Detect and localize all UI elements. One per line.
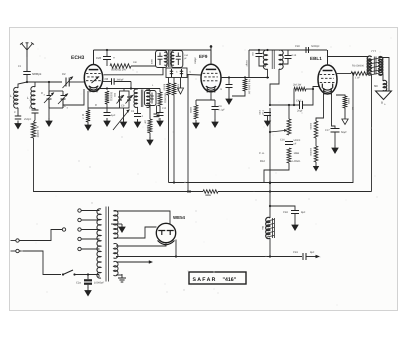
wire C26 arrow out <box>306 255 320 259</box>
wire HT bus right <box>249 49 327 51</box>
wire gang top <box>49 90 63 92</box>
resistor R16 <box>314 146 318 162</box>
resistor R8 cathode 300 <box>194 105 198 119</box>
inductor IF2 primary <box>263 50 267 69</box>
arrow IF1 shield ground <box>178 78 184 95</box>
wire C6 to R1 <box>34 113 36 122</box>
resistor R2 <box>86 110 90 122</box>
inductor IF1 secondary winding <box>171 52 174 65</box>
svg-text:C8: C8 <box>105 77 109 81</box>
wire EF9 top stub <box>210 45 212 50</box>
wire gang to ground <box>48 108 50 119</box>
wire oscillator grid row <box>98 88 138 90</box>
svg-text:C12: C12 <box>162 107 167 110</box>
capacitor C18 IF2 secondary <box>285 56 292 59</box>
capacitor trimmer IF1 a <box>170 69 173 77</box>
resistor R17 cathode bias <box>336 95 345 96</box>
wire EF9 anode line <box>221 77 269 79</box>
wire AVC bus <box>169 182 354 184</box>
node EF9 top <box>210 45 213 48</box>
ground below R2 <box>85 122 91 130</box>
core oscillator transformer <box>141 90 143 108</box>
node input junction <box>26 81 28 83</box>
svg-text:R9 2.2MΩ 1W: R9 2.2MΩ 1W <box>248 79 251 95</box>
svg-text:50μF: 50μF <box>341 131 347 134</box>
resistor R6 AVC <box>167 83 171 95</box>
wire HT output line <box>176 256 302 258</box>
wire input to C2 <box>27 81 62 83</box>
svg-text:8μF: 8μF <box>301 211 306 214</box>
wire to AVC bus right <box>352 74 354 184</box>
wire R5 to C12 <box>159 106 161 112</box>
svg-text:C. A.: C. A. <box>259 152 265 155</box>
capacitor C13 IF1 primary <box>158 53 163 66</box>
svg-text:1W: 1W <box>113 93 116 97</box>
svg-text:C2: C2 <box>62 72 66 76</box>
svg-text:C6: C6 <box>29 107 33 110</box>
tube EF9 IF amplifier <box>201 64 221 92</box>
wire oscillator bottom row <box>88 107 120 109</box>
wire L1 top to input node <box>18 82 27 88</box>
capacitor C12 <box>157 113 164 116</box>
ground below C15 <box>226 96 232 104</box>
svg-text:20μF: 20μF <box>297 110 303 113</box>
svg-text:300Ω: 300Ω <box>189 107 192 113</box>
resistor R3 screen 50000 <box>110 64 131 68</box>
svg-text:"416": "416" <box>223 277 237 283</box>
capacitor C14 IF1 secondary <box>176 53 181 66</box>
inductor filament winding rectifier <box>114 244 118 259</box>
capacitor C20 screen bypass <box>103 57 111 60</box>
speaker cone <box>376 90 392 99</box>
capacitor C5 below L1 <box>15 116 22 119</box>
svg-text:2-10: 2-10 <box>292 54 297 57</box>
svg-text:500000: 500000 <box>309 148 312 156</box>
svg-text:340pF: 340pF <box>117 78 125 81</box>
wire rectifier filament lead 2 HT output <box>116 240 176 257</box>
ground below trimmer box <box>120 119 126 127</box>
wire secondary top to speaker return <box>379 58 390 92</box>
wire HT bus top <box>94 49 212 51</box>
wire R15 R16 join <box>315 138 317 146</box>
node oscillator grid <box>130 87 132 89</box>
capacitor C12a padder <box>154 114 160 117</box>
capacitor C1 antenna 5000pF <box>23 72 31 75</box>
inductor HT secondary <box>114 210 118 238</box>
box IF1 secondary can <box>171 51 183 68</box>
wire ECH3 triode anode to C8 <box>103 81 111 83</box>
wire C20a down <box>267 116 269 119</box>
wire to R8 <box>195 100 197 105</box>
svg-text:WE54: WE54 <box>173 215 186 220</box>
wire EBL1 cathode leg right <box>332 90 336 129</box>
wire EBL1 top to bus <box>327 50 329 65</box>
core mains transformer <box>106 207 109 282</box>
wire reaction to C12a <box>156 106 158 115</box>
inductor filament winding heaters <box>114 261 119 275</box>
svg-text:4000: 4000 <box>151 58 154 64</box>
node choke bottom <box>269 255 271 257</box>
node R4 top <box>106 87 108 89</box>
tube ECH3 converter <box>84 65 102 93</box>
ground below C24 <box>85 288 91 296</box>
wire transformer to ground bus <box>371 75 373 192</box>
wire down to tuning gang <box>48 82 50 91</box>
inductor mains primary <box>97 209 101 278</box>
wire choke top to C25 <box>270 206 295 210</box>
svg-text:EBL1: EBL1 <box>310 56 322 61</box>
inductor output transformer primary <box>367 56 371 75</box>
svg-text:R: R <box>81 114 85 116</box>
wire L1 bottom <box>17 108 19 116</box>
terminal mains tap 3 <box>78 228 81 231</box>
capacitor C26 output 8uF <box>303 253 306 260</box>
capacitor C15 <box>226 85 233 88</box>
box oscillator trimmer gang <box>120 91 130 108</box>
wire ground bus right <box>218 191 372 193</box>
core output transformer <box>374 57 376 75</box>
svg-text:C: C <box>14 111 16 114</box>
resistor R18 10 ohm hum <box>203 190 218 194</box>
resistor R10 grid 2M <box>294 87 306 91</box>
box oscillator reaction can <box>145 91 157 106</box>
svg-text:C2a: C2a <box>76 282 81 285</box>
wire transformer top <box>371 56 373 59</box>
wire oscillator top right <box>138 88 161 90</box>
wire C20 to R3 <box>106 60 108 67</box>
node C24 tap <box>87 273 89 275</box>
wire L2 top to input line <box>34 82 36 87</box>
ground heater winding <box>118 274 126 282</box>
wire tap 3 to primary <box>81 229 99 231</box>
node EBL1 grid <box>312 88 314 90</box>
node IF2 primary top <box>266 49 268 51</box>
terminal mains tap 4 <box>78 237 81 240</box>
svg-text:C17: C17 <box>325 129 330 132</box>
svg-text:10Ω: 10Ω <box>205 194 210 197</box>
resistor R4 oscillator 50000 <box>105 91 109 104</box>
svg-text:30000: 30000 <box>357 65 365 68</box>
svg-text:1 W: 1 W <box>355 77 360 80</box>
wire to R12 top <box>288 105 290 119</box>
inductor L1 <box>14 87 18 108</box>
capacitor C9 trimmer a <box>117 95 125 104</box>
inductor voice coil <box>383 80 387 91</box>
wire to C16 <box>214 100 216 106</box>
terminal mains tap 1 <box>78 209 81 212</box>
wire HT bottom to WE54 plate 2 <box>114 227 157 238</box>
svg-text:5000pF: 5000pF <box>32 72 42 76</box>
svg-text:C10: C10 <box>258 110 261 115</box>
wire to C20 <box>106 50 108 56</box>
wire IF1 return left <box>168 78 170 84</box>
svg-text:B: B <box>381 101 383 105</box>
tube EBL1 output <box>318 65 337 95</box>
wire R10 left leg <box>293 89 295 105</box>
wire detector to choke feed <box>269 112 271 218</box>
terminal mains input upper <box>16 239 19 242</box>
terminal mains input lower <box>16 249 19 252</box>
capacitor C6 <box>32 110 39 113</box>
svg-text:5H: 5H <box>261 227 264 230</box>
wire C17 down <box>259 57 266 67</box>
resistor R5 <box>158 92 162 106</box>
svg-text:15000: 15000 <box>36 130 39 138</box>
svg-text:5000pF: 5000pF <box>311 45 320 48</box>
svg-text:C4(1): C4(1) <box>296 100 303 103</box>
svg-text:150Ω: 150Ω <box>347 98 350 104</box>
svg-text:7 H: 7 H <box>371 49 376 53</box>
wire ground bus left <box>34 191 204 193</box>
svg-text:40000: 40000 <box>163 84 166 91</box>
svg-text:0.1μF: 0.1μF <box>219 109 226 112</box>
wire gang right upper <box>62 91 64 95</box>
capacitor C9 trimmer b <box>126 95 134 104</box>
wire box to R6 <box>149 106 151 120</box>
svg-text:150pF: 150pF <box>194 57 197 64</box>
wire mains stub upper <box>11 240 16 242</box>
resistor R15 <box>314 121 318 138</box>
capacitor C22 HT line 5000pF <box>306 47 309 53</box>
ground below C5 <box>15 121 21 129</box>
svg-text:C18: C18 <box>283 211 288 214</box>
capacitor C16 cathode 0.1uF <box>212 107 219 110</box>
wire bus drop to anode line <box>248 50 250 78</box>
capacitor trimmer reaction <box>150 93 154 104</box>
capacitor C7 <box>104 113 111 116</box>
wire mains upper to selector <box>19 230 62 241</box>
wire IF2 primary bottom to anode <box>267 69 269 78</box>
ground below C11 <box>134 119 140 127</box>
wire mains stub lower <box>11 250 16 252</box>
inductor filter choke <box>266 217 275 238</box>
svg-text:250pF: 250pF <box>24 118 32 121</box>
node choke ground cross <box>269 190 271 192</box>
capacitor C25 filter 8uF <box>291 211 299 214</box>
wire secondary bottom to voice coil <box>379 74 384 81</box>
wire EBL1 plate to R14 <box>337 73 351 75</box>
capacitor C3 variable <box>44 91 54 108</box>
wire R4 to C7 <box>106 104 108 112</box>
ground HT center tap <box>119 224 125 232</box>
svg-text:C16: C16 <box>280 139 285 142</box>
wire choke bottom <box>269 238 271 257</box>
wire L3 bottom to C11 <box>137 107 139 113</box>
svg-text:+: + <box>113 56 115 60</box>
wire to C18 <box>287 50 289 55</box>
svg-text:0.1μF: 0.1μF <box>262 110 265 117</box>
inductor output transformer secondary <box>379 57 383 76</box>
hatch output transformer winding <box>369 58 380 75</box>
svg-text:EF9: EF9 <box>199 54 208 59</box>
svg-text:ECH3: ECH3 <box>71 55 85 61</box>
wire R13 to AVC bus <box>264 163 289 183</box>
svg-text:R: R <box>36 126 40 128</box>
node AVC bus R7 <box>173 181 175 183</box>
node detector output <box>269 104 271 106</box>
wire R1 down to bottom bus <box>33 138 35 192</box>
inductor L3 oscillator primary <box>134 89 138 107</box>
antenna <box>20 43 34 58</box>
wire R9 to ground node <box>232 91 245 96</box>
ground below C25 <box>292 222 298 230</box>
node R14 left <box>352 72 354 74</box>
capacitor C4 variable <box>58 94 68 109</box>
svg-text:R: R <box>94 104 97 106</box>
ground below C12 <box>157 118 163 126</box>
wire IF2 secondary to diode <box>270 69 279 105</box>
resistor R6 oscillator anode <box>148 119 152 133</box>
wire mains lower to switch <box>19 251 61 275</box>
wire R5 top <box>159 89 161 93</box>
svg-text:2M 1W: 2M 1W <box>293 84 302 87</box>
capacitor C17 IF2 primary <box>256 54 263 57</box>
resistor R13 lower <box>287 148 291 163</box>
wire C2 to ECH3 grid <box>69 81 84 83</box>
resistor R14 30000 1W <box>351 72 367 76</box>
wire tap 4 to primary <box>81 238 99 240</box>
inductor IF2 secondary <box>279 50 283 69</box>
capacitor C23 cathode 50uF <box>331 129 340 133</box>
wire rectifier filament lead 1 <box>116 243 166 246</box>
svg-text:LOGR.: LOGR. <box>293 160 301 163</box>
wire ECH3 anode to HT bus <box>93 50 95 65</box>
ground below C23 <box>332 145 338 153</box>
node C15 top <box>228 76 230 78</box>
wire cathode row <box>196 99 215 101</box>
wire tap 2 to primary <box>81 219 99 221</box>
wire to input node <box>26 75 28 83</box>
svg-text:50000Ω 1W: 50000Ω 1W <box>111 68 126 72</box>
svg-text:1μF: 1μF <box>111 114 116 117</box>
wire bus to C17 <box>258 50 260 53</box>
wire IF1 return mid <box>173 78 175 84</box>
node R9 top <box>244 76 246 78</box>
capacitor C21 50000pF <box>285 142 293 145</box>
svg-text:R12: R12 <box>260 160 265 163</box>
svg-text:50000: 50000 <box>309 123 312 130</box>
wire ECH3 grid3 to gang <box>63 89 84 105</box>
wire primary bottom end <box>98 275 100 278</box>
svg-text:C30: C30 <box>295 45 300 48</box>
resistor R1 <box>31 122 35 138</box>
ground below C7 <box>104 118 110 126</box>
wire L2 bottom <box>34 108 36 110</box>
arrow tuning gang link <box>113 110 130 131</box>
node ground bus junction <box>187 190 189 192</box>
wire C18 down <box>279 59 288 65</box>
wire HT top to WE54 plate <box>114 211 171 224</box>
wire EBL1 to output transformer top <box>328 56 370 58</box>
wire C8 to oscillator <box>130 82 132 89</box>
terminal mains tap 5 <box>78 247 81 250</box>
wire detector to C19 AF coupling <box>270 104 299 106</box>
resistor R7 <box>172 83 176 95</box>
node choke AVC cross <box>269 182 271 184</box>
svg-text:S A F A R: S A F A R <box>193 277 216 283</box>
svg-text:C20: C20 <box>96 56 102 60</box>
wire to C15 <box>228 78 230 85</box>
svg-text:50000Ω: 50000Ω <box>110 92 113 101</box>
wire C23 down <box>334 132 336 145</box>
capacitor C2 trimmer <box>63 77 74 89</box>
node IF2 anode junction <box>266 76 268 78</box>
box IF1 trimmer base <box>166 68 187 78</box>
svg-text:50000: 50000 <box>146 126 149 133</box>
wire ECH3 cathode down <box>87 91 89 110</box>
wire IF1 to EF9 grid <box>187 74 202 77</box>
core IF1 <box>168 51 170 68</box>
capacitor C20a detector bypass <box>269 108 271 112</box>
wire heptode plate to IF1 <box>104 67 164 75</box>
svg-text:C9: C9 <box>121 105 125 108</box>
wire R14 to transformer <box>367 73 372 75</box>
wire IF1 to ground bus <box>187 75 189 192</box>
resistor R9 <box>243 79 247 91</box>
ground tuning gang <box>46 118 52 126</box>
wire tap 1 to primary <box>81 210 99 212</box>
wire C8 right <box>114 81 131 83</box>
inductor L2 <box>31 87 35 109</box>
wire C15 down <box>228 88 230 97</box>
wire tap 5 to primary <box>81 248 99 250</box>
wire HT center tap ground <box>111 223 122 225</box>
svg-text:150pF: 150pF <box>245 60 248 67</box>
svg-text:8μF: 8μF <box>310 251 315 254</box>
wire gang bottom <box>49 107 63 109</box>
wire EBL1 cathode leg left <box>316 90 324 122</box>
wire R10 right leg <box>306 88 313 90</box>
wire trimmer box to ground <box>123 108 125 120</box>
capacitor trimmer IF1 b <box>180 69 183 77</box>
svg-text:C: C <box>220 88 223 90</box>
capacitor C11 <box>134 114 141 117</box>
ground below R6 <box>147 137 153 145</box>
wire heater return ground <box>116 274 122 276</box>
core IF2 <box>272 50 274 69</box>
capacitor C24 mains 10000pF <box>84 275 92 289</box>
node gang tap <box>48 81 50 83</box>
capacitor C19 AF coupling <box>300 101 303 109</box>
switch mains <box>62 270 76 276</box>
tube WE54 rectifier <box>156 223 175 244</box>
ground below R8 <box>193 120 199 128</box>
wire C25 down <box>294 214 296 223</box>
wire EF9 top to bus <box>210 50 212 64</box>
wire R6 down <box>149 133 151 138</box>
svg-text:1MΩ: 1MΩ <box>294 152 300 155</box>
wire to trimmer box <box>123 89 125 92</box>
wire EF9 cathode down <box>210 92 212 100</box>
wire switch to primary bottom <box>75 274 100 276</box>
ground below C20a <box>265 118 271 126</box>
arrow R16 to ground <box>313 162 319 172</box>
svg-text:10000pF: 10000pF <box>94 282 105 285</box>
wire R7 down to AVC bus <box>173 95 175 183</box>
box SAFAR label <box>189 272 246 284</box>
ground below C16 <box>212 119 218 127</box>
terminal mains tap 2 <box>78 218 81 221</box>
wire heater line <box>116 260 153 263</box>
wire R17 down with arrow <box>342 108 348 125</box>
potentiometer R12 volume 1M <box>287 119 291 135</box>
capacitor C8 340pF <box>112 78 115 85</box>
box IF1 primary can <box>156 51 168 68</box>
node HT output <box>175 255 177 257</box>
terminal selector plug <box>62 228 65 231</box>
wire antenna lead <box>26 57 28 71</box>
svg-text:6Ω: 6Ω <box>374 84 378 88</box>
